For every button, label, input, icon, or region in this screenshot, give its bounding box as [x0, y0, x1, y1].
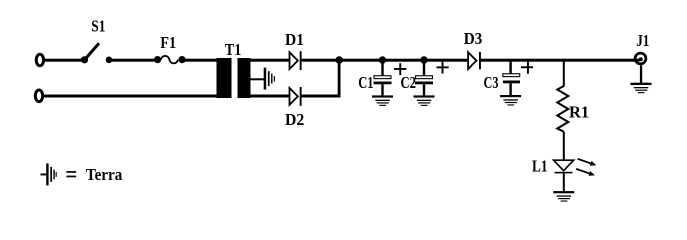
svg-text:D2: D2: [285, 110, 304, 129]
fuse F1: [154, 56, 186, 64]
arrow L1 lower: [576, 169, 595, 176]
plus C2: [437, 62, 449, 74]
terminal top input: [36, 54, 43, 66]
ground center tap: [264, 68, 275, 90]
svg-text:S1: S1: [91, 17, 105, 36]
ground C3: [500, 95, 521, 106]
wire main rail node to D3: [339, 59, 467, 62]
svg-text:L1: L1: [532, 156, 548, 175]
diode D1: [290, 51, 302, 70]
wire L1 to ground: [563, 173, 565, 191]
legend ground symbol: [41, 163, 57, 185]
plus C3: [521, 61, 533, 73]
svg-text:C3: C3: [484, 73, 499, 92]
LED L1: [554, 160, 574, 173]
wire J1 to ground: [640, 65, 642, 83]
ground J1: [631, 83, 652, 94]
svg-text:R1: R1: [569, 103, 589, 122]
wire riser: [338, 60, 341, 98]
wire R1 to L1: [563, 132, 565, 161]
wire D1 to node: [302, 59, 341, 62]
wire fuse to transformer: [182, 59, 188, 62]
node junction D1 D2: [335, 56, 343, 64]
wire switch to fuse: [109, 59, 158, 62]
wire center tap: [251, 78, 264, 80]
diode D2: [290, 87, 302, 106]
wire bottom rail terminal to transformer: [43, 95, 187, 98]
wire main rail D3 to J1: [481, 59, 640, 62]
switch S1: [81, 43, 112, 63]
node C2: [420, 56, 427, 63]
connector J1: [635, 53, 646, 64]
svg-text:T1: T1: [225, 40, 242, 59]
ground L1: [553, 191, 574, 202]
terminal bottom input: [35, 90, 42, 102]
diode D3: [468, 52, 481, 70]
legend equals sign: [66, 171, 76, 177]
svg-text:C1: C1: [358, 73, 373, 92]
ground C1: [372, 95, 393, 106]
svg-text:D3: D3: [464, 29, 483, 48]
transformer T1 secondary: [238, 58, 289, 98]
resistor R1: [557, 86, 568, 132]
node C1: [379, 56, 386, 63]
svg-text:Terra: Terra: [86, 165, 122, 184]
wire R1 branch stem: [563, 61, 565, 87]
transformer T1 primary: [187, 58, 232, 98]
plus C1: [394, 63, 406, 75]
wire D2 to riser: [302, 95, 341, 98]
arrow L1 upper: [578, 159, 597, 166]
svg-text:C2: C2: [401, 73, 417, 92]
svg-text:D1: D1: [285, 30, 304, 49]
capacitor C2: [415, 61, 433, 95]
wire top rail terminal to switch: [44, 59, 83, 62]
svg-text:J1: J1: [636, 31, 649, 50]
capacitor C1: [374, 61, 392, 95]
capacitor C3: [503, 61, 520, 95]
svg-text:F1: F1: [160, 33, 176, 52]
ground C2: [414, 95, 435, 106]
